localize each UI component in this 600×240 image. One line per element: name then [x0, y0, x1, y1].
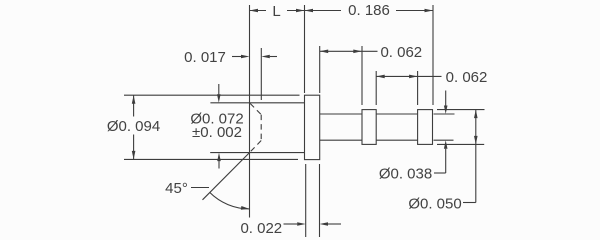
dimension 0.186 — [305, 5, 434, 105]
45 degree chamfer callout — [191, 153, 250, 210]
dimension 0.017 — [232, 48, 277, 100]
svg-text:Ø0. 094: Ø0. 094 — [107, 118, 160, 135]
svg-text:±0. 002: ±0. 002 — [192, 124, 242, 141]
hidden entry funnel (dashed) — [250, 104, 261, 152]
band ring 2 — [418, 110, 433, 145]
flange — [305, 95, 320, 159]
dimension L — [250, 9, 305, 13]
dimension 0.022 — [284, 164, 342, 237]
svg-text:0. 017: 0. 017 — [184, 49, 226, 66]
dimension dia 0.050 — [437, 110, 485, 203]
svg-text:45°: 45° — [165, 180, 188, 197]
dimension 0.062 first — [320, 46, 378, 105]
dimension dia 0.094 — [124, 95, 300, 159]
band ring 1 — [362, 110, 376, 145]
svg-text:Ø0. 038: Ø0. 038 — [379, 166, 432, 183]
dimension 0.062 second — [376, 71, 441, 105]
svg-text:0. 062: 0. 062 — [446, 69, 488, 86]
barrel body outline — [210, 103, 304, 153]
svg-text:0. 186: 0. 186 — [348, 2, 390, 19]
shaft segment 2 — [376, 114, 417, 140]
svg-text:0. 062: 0. 062 — [380, 44, 422, 61]
dimension dia 0.072 arrows — [217, 84, 221, 169]
svg-text:0. 022: 0. 022 — [240, 220, 282, 237]
barrel left face / extension vertical — [249, 5, 251, 218]
svg-text:L: L — [272, 3, 280, 20]
shaft segment 1 — [320, 114, 362, 140]
dimension dia 0.038 — [434, 91, 455, 174]
svg-text:Ø0. 050: Ø0. 050 — [408, 196, 461, 213]
